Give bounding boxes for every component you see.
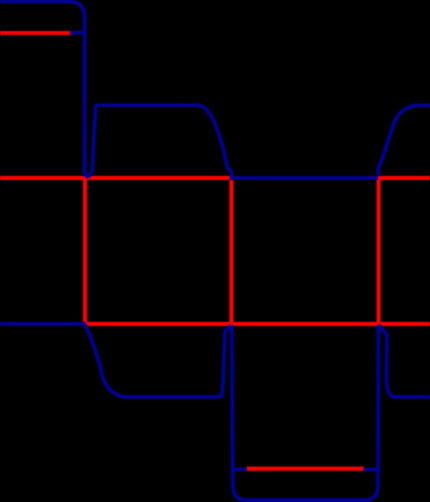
crease: glue-flap fold line top-left xyxy=(0,31,71,35)
cut: bottom dust flap outline (panel 4) xyxy=(379,325,430,397)
cut: top dust flap outline (panel 2) xyxy=(89,105,232,178)
crease: vertical panel fold 3 xyxy=(377,178,381,323)
crease: vertical panel fold 1 xyxy=(83,178,87,324)
crease: tuck flap lock fold xyxy=(247,467,364,471)
cut: tuck flap outline (panel 3) xyxy=(232,325,379,500)
cut: bottom dust flap outline (panel 2) xyxy=(85,325,231,397)
cut: tall top flap outline (panel 1) xyxy=(0,2,89,177)
cut: nick at end of glue-flap fold xyxy=(70,31,86,35)
cut: open bottom edge of panel 1 xyxy=(0,322,86,326)
crease: top fold line left segment xyxy=(0,176,231,180)
cut: tuck lock slit right xyxy=(364,468,379,472)
cut: tuck lock slit left xyxy=(232,468,247,472)
crease: top fold line right segment xyxy=(378,176,430,180)
cut: open top edge of panel 3 xyxy=(230,176,378,180)
crease: vertical panel fold 2 xyxy=(229,180,233,323)
cut: top dust flap outline (panel 4) xyxy=(378,105,430,176)
crease: bottom fold line xyxy=(84,322,430,326)
